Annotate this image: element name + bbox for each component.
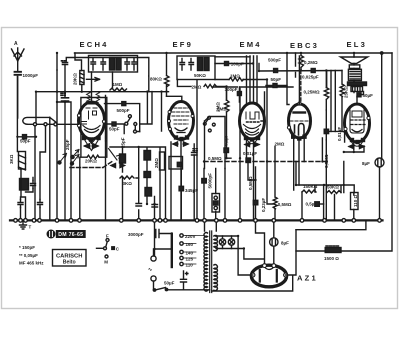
resistor 20K on box [87,155,99,159]
wire EF9 plate to 100pF [213,64,342,88]
dashed AVC line left [70,162,112,168]
tube EF9 [169,102,194,140]
svg-text:0,23µF: 0,23µF [261,198,266,212]
svg-text:80KΩ: 80KΩ [150,77,162,82]
svg-text:1500 Ω: 1500 Ω [324,256,339,261]
tube EM4 [240,103,265,139]
svg-text:AZ1: AZ1 [297,274,318,283]
svg-text:25KΩ: 25KΩ [344,86,349,98]
capacitor 50pF left [17,136,36,138]
svg-text:EL3: EL3 [347,40,368,49]
svg-text:∿: ∿ [148,267,152,273]
triode V electrode [87,137,98,144]
output transformer core [348,82,367,86]
pilot lamps [216,236,244,249]
capacitor mid a [136,204,142,207]
svg-text:1000pF: 1000pF [23,73,39,78]
logo roundel [47,230,55,238]
svg-text:1MΩ: 1MΩ [113,82,123,87]
svg-text:F: F [106,234,109,239]
svg-text:0,2MΩ: 0,2MΩ [304,60,318,65]
svg-text:125: 125 [186,257,194,262]
capacitor 50uF [357,93,361,97]
svg-text:0,5MΩ: 0,5MΩ [208,156,222,161]
arrows ECH4 [85,145,97,147]
svg-text:2MΩ: 2MΩ [275,142,285,147]
arrows osc tuning [85,145,99,147]
power transformer core [210,231,212,293]
svg-text:50pF: 50pF [271,77,282,82]
svg-text:140: 140 [186,251,194,256]
wire drops ECH4 section [75,53,106,220]
capacitor left b [38,200,43,208]
wire antenna lead [17,61,19,71]
svg-text:2MΩ: 2MΩ [154,158,159,168]
svg-text:8µF: 8µF [281,241,289,246]
ground [20,222,27,230]
svg-text:* 150pF: * 150pF [19,245,35,250]
oscillator box [81,98,107,158]
trimmer arrows left [60,154,67,163]
svg-text:DM 76-65: DM 76-65 [58,232,83,238]
svg-text:20KΩ: 20KΩ [73,73,78,85]
capacitor 0,025uF [311,69,315,73]
IF transformer box 2 [177,56,215,80]
svg-text:3000pF: 3000pF [128,232,144,237]
mains switch [154,281,166,290]
V lead ECH4 [85,141,98,151]
section box top left [66,58,149,77]
wire EBC3 grid dashed [300,71,302,104]
antenna [12,48,25,61]
V lead EM4 [247,140,257,144]
wire antenna horizontals [36,53,57,123]
svg-text:M: M [104,260,108,265]
wires osc section [110,147,166,220]
svg-text:ECH4: ECH4 [80,40,109,49]
resistor 0,5M EBC3 grid [273,147,277,220]
dashed AVC line right [204,161,330,163]
resistor 110 ohm [351,193,359,210]
capacitor 8uF upper [375,158,384,167]
svg-text:EM4: EM4 [240,40,262,49]
svg-text:Beito: Beito [63,260,76,266]
wire mid horizontals [57,102,71,220]
trimmer capacitor ** [61,93,69,101]
capacitor 8uF lower [270,238,278,246]
arrows EF9 [173,143,188,145]
wires EF9-EM4 [197,80,240,220]
wires AZ1 [212,222,296,292]
variable capacitor osc [109,149,125,166]
svg-text:25pF: 25pF [65,139,70,150]
transformer primary wires [205,222,217,232]
rectifier AZ1 [251,265,286,287]
loudspeaker [341,57,368,64]
svg-text:*100pF: *100pF [229,62,244,67]
trimmer arrow left [73,150,80,158]
svg-text:500pF: 500pF [117,108,130,113]
wire bundle EM4 [247,56,265,220]
capacitor 50pF coupling [104,123,125,125]
svg-text:2MΩ: 2MΩ [217,107,227,112]
resistor osc grid b [96,92,100,103]
tube EL3 [345,104,370,142]
wire grid bus y91.7 [36,91,169,93]
capacitor 3000pF [155,222,173,256]
svg-text:3KΩ: 3KΩ [123,181,133,186]
svg-text:160: 160 [186,242,194,247]
transformer secondary winding [214,236,217,251]
arrows EM4 [245,144,259,146]
svg-text:A: A [14,41,18,47]
svg-text:220V: 220V [185,234,196,239]
arrow into box [87,78,100,82]
IF transformer box 1 [89,56,138,73]
capacitor mid b [152,205,158,208]
wire left verticals [17,70,57,220]
resistor 25K vertical [340,71,344,132]
wires EL3 top [327,53,364,131]
svg-text:5000pF: 5000pF [207,173,212,189]
wire stubs EM4 couplings [215,57,273,204]
capacitor 1000pF [15,72,22,75]
svg-text:0,01µF: 0,01µF [337,127,342,141]
svg-text:8µF: 8µF [362,161,370,166]
capacitor EF9 cath [192,149,198,155]
antenna coil 2 [20,179,29,191]
tube ECH4 [79,102,105,139]
svg-text:0,5MΩ: 0,5MΩ [278,202,292,207]
output transformer secondary [351,87,363,92]
svg-text:500pF: 500pF [268,58,281,63]
svg-text:** 0,05µF: ** 0,05µF [19,253,38,258]
wire below bus right loop [296,222,366,230]
voltage selector [171,234,173,267]
switch box unit [205,117,226,169]
main HT bus [10,219,383,221]
wires EL3 bottom [344,131,364,152]
svg-text:0,5MΩ: 0,5MΩ [248,176,253,190]
svg-text:345pF: 345pF [185,188,198,193]
oscillator coil stack [120,154,126,163]
tube EBC3 [289,104,311,138]
trimmer capacitor * [62,61,68,65]
V lead EL3 [352,142,363,146]
svg-text:3KΩ: 3KΩ [9,154,14,164]
capacitor left a [18,200,23,208]
wave switch FCM [97,247,104,249]
svg-text:MF 465 kHz: MF 465 kHz [19,261,44,266]
mains plug [151,256,156,261]
top rail B+ [75,52,393,54]
pot 0,5M volume [212,194,220,213]
resistor osc grid a [87,92,91,103]
wire rail corner right down [341,53,392,251]
svg-text:EBC3: EBC3 [290,41,319,50]
wire drops EF9 [171,140,194,220]
CARISCH box [53,250,87,267]
band switch [125,122,128,125]
svg-text:0,01µF: 0,01µF [243,151,257,156]
junction nodes on bus [14,219,382,223]
svg-text:110 Ω: 110 Ω [353,194,358,207]
svg-text:50pF: 50pF [109,127,120,132]
svg-text:110: 110 [186,263,194,268]
wire EF9 grid net [140,76,227,131]
speaker voice coil [348,69,361,80]
svg-text:0,25MΩ: 0,25MΩ [304,90,321,95]
wires right mid [296,162,354,220]
capacitor 500pF coupling [105,104,140,132]
svg-text:0,025µF: 0,025µF [302,75,319,80]
svg-text:50pF: 50pF [20,139,31,144]
antenna coil [23,117,79,124]
svg-text:50µF: 50µF [164,281,175,286]
choke 1500ohm [296,250,325,252]
svg-text:T: T [29,225,32,230]
svg-text:20KΩ: 20KΩ [85,159,97,164]
svg-text:50KΩ: 50KΩ [194,73,206,78]
wire antenna lead lower [17,77,19,119]
wires EBC3 [287,53,304,190]
svg-text:EF9: EF9 [173,40,194,49]
transformer primary winding [204,233,207,291]
arrows EL3 [349,146,364,148]
IF3 coil box [160,152,165,170]
capacitor pad [31,181,36,189]
